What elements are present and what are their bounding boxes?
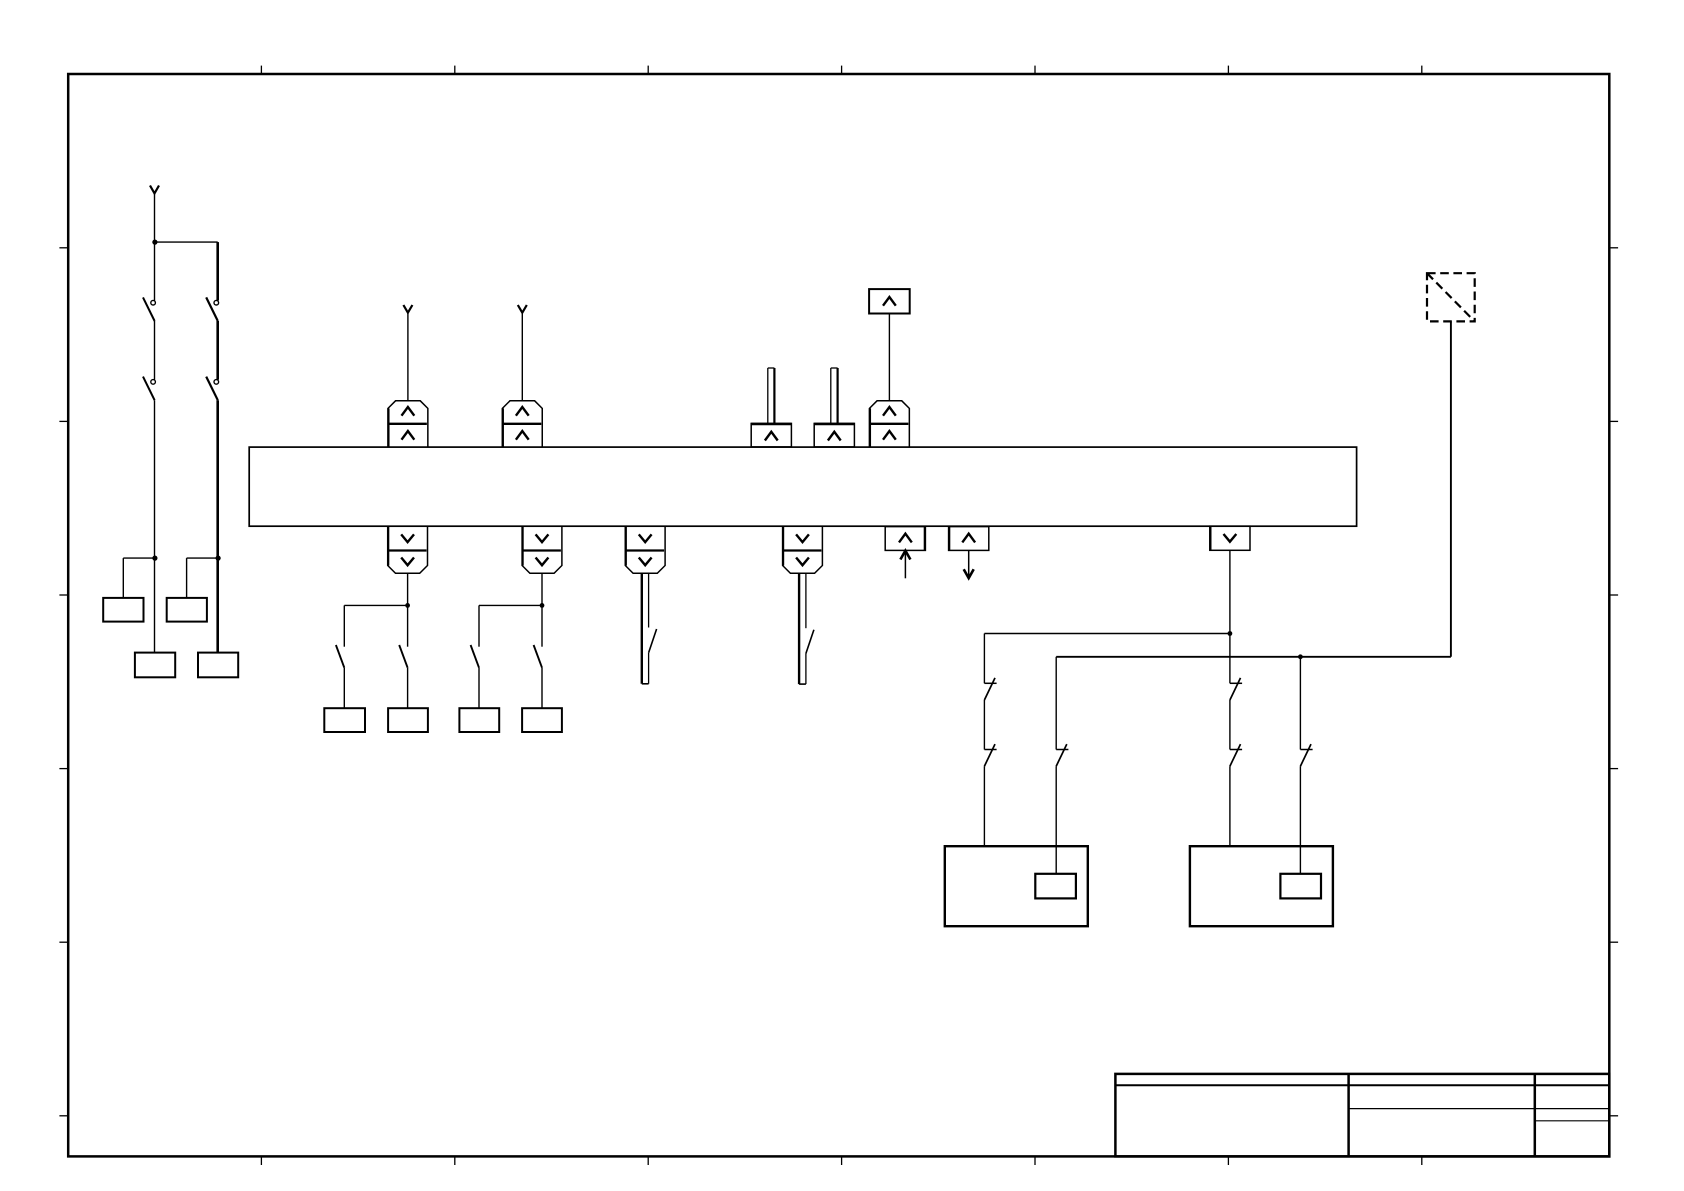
wire [478,605,480,646]
riser with switch S6 [798,573,800,684]
arrow out [968,550,970,577]
wire [154,321,156,380]
wire [407,668,409,709]
fuse link F1 [767,368,769,423]
socket XS9 [1210,526,1250,550]
socket connector XS3 [388,526,428,573]
node K6 [1228,631,1233,636]
wire [983,634,985,684]
wire [1229,634,1231,684]
wire [1299,766,1301,874]
disconnector Q1b [151,380,156,385]
breaker Q3b [984,749,996,751]
frame zone ticks top edge [260,66,262,74]
terminal box X7 [459,708,499,732]
wire [407,605,409,646]
metering transformer box T1 dashed [1427,273,1475,321]
wire [216,242,219,300]
socket XS2 with link [814,423,854,447]
terminal box X3 [135,653,175,678]
node K5 [540,603,545,608]
wire [1055,766,1057,874]
terminal box X5 [324,708,365,732]
wire [478,668,480,709]
wire [541,573,543,605]
wire [1229,766,1231,846]
wire [216,321,219,380]
switch S3 [471,645,479,668]
wire [187,557,219,559]
wire [521,313,523,401]
wire [1229,700,1231,750]
wire [154,400,156,558]
terminal box X4 [198,653,238,678]
cabinet box U1 [945,846,1088,926]
frame zone ticks bottom edge [260,1156,262,1165]
disconnector Q2b [214,380,219,385]
breaker Q3a [984,682,996,684]
antenna W1 [150,186,159,194]
plug connector XP2 [502,401,542,447]
wire [1299,657,1301,750]
wire [216,400,219,558]
switch S4 [534,645,542,668]
wire [343,668,345,709]
plug connector XP3 [869,401,909,447]
wire [123,557,155,559]
socket connector XS5 [625,526,665,573]
socket XS7 [885,527,925,551]
terminal box X1 [103,598,143,622]
wire [984,633,1230,635]
wire [186,558,188,598]
wire [344,604,407,606]
switch S1 [336,645,344,668]
riser with switch S5 [641,573,643,684]
wire [407,573,409,605]
wire [216,558,219,653]
node K3 [216,556,221,561]
wire [983,766,985,846]
wire [154,193,156,242]
wire [154,558,156,653]
wire [154,242,156,300]
breaker Q5b [1230,749,1242,751]
module box U1.1 [1035,874,1076,899]
disconnector Q1a [151,300,156,305]
wire [479,604,542,606]
wire [1229,550,1231,633]
switch S2 [399,645,407,668]
cabinet box U2 [1190,846,1333,926]
device box A1 [869,289,910,313]
wire [155,241,218,243]
wire [1450,321,1452,656]
wire [122,558,124,598]
plug connector XP1 [388,401,428,447]
fuse link F2 [830,368,832,423]
disconnector Q2a [214,300,219,305]
wire [541,605,543,646]
wire [1056,656,1451,658]
wire [983,700,985,750]
socket XS8 [949,527,989,551]
antenna W2 [403,305,412,313]
socket connector XS6 [783,526,823,573]
breaker Q5a [1230,682,1242,684]
module box U2.1 [1280,874,1321,899]
breaker Q6 [1300,749,1312,751]
frame zone ticks right edge [1609,247,1618,249]
frame zone ticks left edge [59,247,68,249]
node K2 [152,556,157,561]
node K7 [1298,654,1303,659]
node K4 [405,603,410,608]
wire [343,605,345,646]
terminal box X2 [167,598,207,622]
breaker Q4 [1056,749,1068,751]
node K1 [152,240,157,245]
socket connector XS4 [522,526,562,573]
terminal box X6 [388,708,428,732]
wire [407,313,409,401]
arrow in [904,552,906,579]
title block [1115,1074,1609,1157]
wire [1055,657,1057,750]
antenna W3 [518,305,527,313]
bus bar duct [249,447,1356,526]
wire [541,668,543,709]
socket XS1 with link [751,423,791,447]
wire [888,314,890,401]
terminal box X8 [522,708,562,732]
